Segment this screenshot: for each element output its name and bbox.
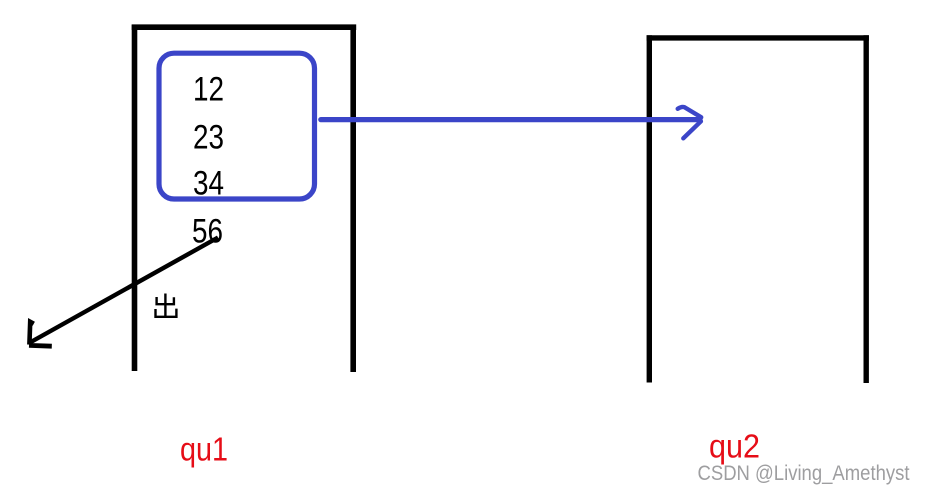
dequeue arrowhead upper barb <box>29 322 33 345</box>
queue qu2 right wall <box>864 35 869 383</box>
dequeue diagonal arrow shaft <box>30 238 218 343</box>
dequeue arrowhead lower barb <box>29 343 52 349</box>
blue arrowhead upper stroke <box>678 107 702 117</box>
blue arrowhead lower stroke <box>683 121 701 138</box>
svg-text:23: 23 <box>193 118 224 156</box>
queue qu1 right wall <box>350 25 356 372</box>
blue transfer arrow shaft <box>321 117 700 122</box>
svg-text:qu1: qu1 <box>180 431 228 468</box>
chu (out) glyph center stroke <box>164 294 166 317</box>
svg-text:CSDN @Living_Amethyst: CSDN @Living_Amethyst <box>698 462 910 485</box>
svg-text:12: 12 <box>193 70 224 108</box>
svg-text:qu2: qu2 <box>709 428 760 465</box>
svg-text:34: 34 <box>193 165 224 203</box>
chu (out) glyph upper U <box>157 297 174 304</box>
queue qu2 top wall <box>647 35 869 40</box>
queue qu1 left wall <box>132 25 138 371</box>
queue qu1 top wall <box>132 24 357 30</box>
chu (out) glyph lower U <box>156 309 177 317</box>
queue qu2 left wall <box>647 35 652 382</box>
blue rounded group box <box>159 53 315 199</box>
